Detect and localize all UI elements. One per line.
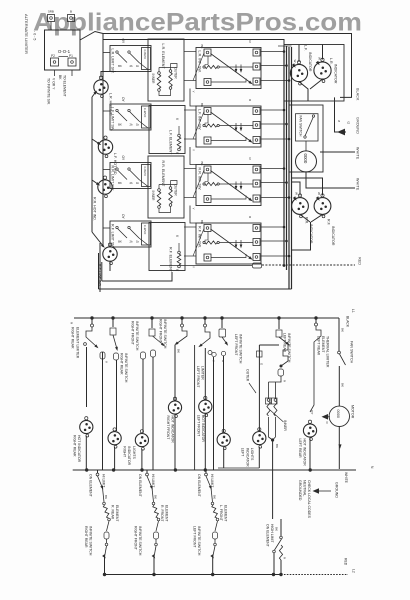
svg-text:R.R. INF. SW.: R.R. INF. SW. bbox=[198, 168, 202, 191]
svg-text:GROUND: GROUND bbox=[356, 117, 360, 134]
svg-text:L.R. HOT IND.: L.R. HOT IND. bbox=[109, 93, 113, 116]
motor (top) bbox=[296, 151, 317, 172]
switch blades bbox=[117, 170, 127, 180]
svg-text:LEFT FRONT: LEFT FRONT bbox=[193, 526, 197, 548]
svg-text:2b: 2b bbox=[129, 64, 133, 68]
compensator sub-box bbox=[142, 223, 151, 245]
white wires bbox=[320, 151, 355, 153]
lamp stems bbox=[85, 436, 87, 470]
svg-text:BK: BK bbox=[200, 162, 204, 166]
svg-text:L. FRONT: L. FRONT bbox=[219, 505, 223, 522]
svg-text:W: W bbox=[317, 192, 321, 195]
svg-text:R. REAR: R. REAR bbox=[111, 505, 115, 520]
bottom diagram top bus (L1) bbox=[74, 317, 339, 319]
svg-text:GROUNDED: GROUNDED bbox=[298, 480, 302, 501]
svg-text:ON ELEMENT: ON ELEMENT bbox=[197, 474, 201, 498]
svg-text:WHITE: WHITE bbox=[356, 178, 360, 191]
svg-text:R.F.: R.F. bbox=[327, 219, 331, 226]
svg-text:INDICATOR: INDICATOR bbox=[127, 446, 131, 465]
inf sw internals bbox=[207, 115, 209, 124]
svg-text:INNER: INNER bbox=[151, 74, 155, 85]
inf sw internals bbox=[207, 232, 209, 241]
element to inf sw links bbox=[184, 109, 196, 111]
svg-text:HOT INDICATOR: HOT INDICATOR bbox=[201, 415, 205, 443]
svg-text:INDICATOR: INDICATOR bbox=[245, 448, 249, 467]
connector bbox=[100, 352, 105, 359]
svg-text:ELEMENT: ELEMENT bbox=[115, 505, 119, 522]
hot indicator lamp at 259.3,438.1 bbox=[253, 428, 266, 448]
svg-text:BLACK: BLACK bbox=[356, 88, 360, 101]
svg-text:BK: BK bbox=[118, 64, 122, 68]
svg-text:BK: BK bbox=[200, 45, 204, 49]
right front hot indicator branch bbox=[181, 318, 183, 324]
right front limiter branch bbox=[151, 318, 153, 328]
left terminals bbox=[204, 225, 211, 232]
L.R. indicator lamp bbox=[314, 58, 331, 82]
svg-text:RIGHT FRONT: RIGHT FRONT bbox=[166, 416, 170, 441]
svg-text:LEFT FRONT: LEFT FRONT bbox=[196, 366, 200, 388]
inf sw internals bbox=[207, 56, 209, 65]
svg-text:BLACK: BLACK bbox=[346, 316, 350, 328]
L.R. element box (dual) bbox=[148, 39, 184, 101]
svg-text:BK: BK bbox=[104, 495, 108, 499]
svg-text:C-WVO: C-WVO bbox=[143, 50, 147, 59]
svg-text:RIGHT FRONT: RIGHT FRONT bbox=[134, 526, 138, 551]
svg-text:LEFT: LEFT bbox=[241, 448, 245, 457]
svg-text:RIGHT FRONT: RIGHT FRONT bbox=[159, 319, 163, 344]
ground branch (top) bbox=[335, 97, 347, 132]
svg-text:AppliancePartsPros.com: AppliancePartsPros.com bbox=[33, 9, 362, 37]
svg-text:LEFT REAR: LEFT REAR bbox=[317, 336, 321, 356]
element chain at x=147 bbox=[146, 470, 148, 473]
fan switch (bottom) bbox=[338, 318, 340, 351]
right front infinite switch branch bbox=[112, 318, 114, 327]
left terminals bbox=[204, 49, 211, 56]
wires to right bus bbox=[261, 51, 285, 53]
right terminals bbox=[253, 166, 260, 173]
neutral bus (N WHITE) bbox=[73, 469, 356, 471]
svg-text:1b: 1b bbox=[136, 64, 140, 68]
left front infinite switch branch bbox=[221, 318, 223, 328]
hot indicator lamp at 141.9,440.1 bbox=[135, 430, 148, 450]
svg-text:1b: 1b bbox=[136, 240, 140, 244]
svg-text:ELEMENT: ELEMENT bbox=[321, 336, 325, 353]
fan switch blade bbox=[305, 117, 314, 137]
R.F. limit switch box bbox=[110, 221, 151, 247]
svg-text:BK: BK bbox=[341, 328, 345, 332]
svg-text:HIGH LIMIT: HIGH LIMIT bbox=[270, 524, 274, 544]
svg-text:C-WVO: C-WVO bbox=[143, 108, 147, 117]
right rear element limiter branch bbox=[91, 318, 93, 324]
svg-text:RIGHT REAR: RIGHT REAR bbox=[120, 353, 124, 375]
L.R. infinite switch box bbox=[196, 48, 261, 89]
svg-text:L.R. LIMIT SW.: L.R. LIMIT SW. bbox=[111, 49, 115, 74]
wire bus to limit box bbox=[103, 169, 110, 171]
limit to element diagonal bbox=[139, 238, 148, 245]
element chain at x=97.5 bbox=[97, 470, 99, 473]
R.R. element box (dual) bbox=[148, 156, 184, 218]
L.F. infinite switch box bbox=[196, 106, 261, 147]
top bus wire 1 (to BLACK) bbox=[103, 34, 352, 98]
svg-text:- 0 - 5: - 0 - 5 bbox=[33, 31, 37, 40]
svg-text:R: R bbox=[283, 380, 287, 382]
left terminals bbox=[204, 166, 211, 173]
svg-text:HOT INDICATOR: HOT INDICATOR bbox=[77, 435, 81, 463]
svg-text:BK: BK bbox=[118, 240, 122, 244]
left rear infinite switch branch bbox=[278, 318, 280, 329]
fan switch sub-box bbox=[296, 114, 319, 141]
high limit on element chain bbox=[280, 519, 282, 536]
R.F. infinite switch box bbox=[196, 223, 261, 264]
R.F. element box (single) bbox=[149, 223, 185, 271]
svg-text:HOT INDICATOR: HOT INDICATOR bbox=[171, 416, 175, 444]
svg-text:RIGHT FRONT: RIGHT FRONT bbox=[131, 321, 135, 346]
svg-text:L.R. ELEMENT: L.R. ELEMENT bbox=[161, 44, 165, 70]
wire bus to limit box bbox=[103, 52, 110, 54]
svg-text:TO ELEMENT: TO ELEMENT bbox=[63, 75, 67, 97]
right bus verticals bbox=[283, 46, 285, 266]
outer element line bbox=[259, 344, 279, 346]
svg-text:B: B bbox=[70, 10, 72, 14]
svg-text:RIGHT REAR: RIGHT REAR bbox=[71, 327, 75, 349]
terminal P2 bbox=[51, 58, 59, 66]
R indicator wires bbox=[292, 182, 301, 195]
leads below alternate limiter bbox=[54, 70, 56, 76]
svg-text:1b: 1b bbox=[136, 181, 140, 185]
L.F. indicator lamp bbox=[290, 61, 307, 85]
svg-text:HOT INDICATOR: HOT INDICATOR bbox=[303, 439, 307, 467]
right terminals bbox=[253, 225, 260, 232]
svg-text:HI LIMIT: HI LIMIT bbox=[102, 474, 106, 488]
svg-text:INFINITE SWITCH: INFINITE SWITCH bbox=[138, 526, 142, 556]
svg-text:INNER: INNER bbox=[151, 191, 155, 202]
svg-text:V: V bbox=[105, 361, 109, 363]
compensator sub-box bbox=[142, 165, 151, 187]
R.F. indicator lamp bbox=[314, 194, 331, 218]
svg-text:BK: BK bbox=[200, 103, 204, 107]
svg-text:L.F. ELEMENT: L.F. ELEMENT bbox=[169, 130, 173, 155]
limit to element diagonal bbox=[139, 63, 148, 70]
svg-text:P2: P2 bbox=[51, 54, 55, 58]
svg-text:R: R bbox=[283, 557, 287, 559]
svg-text:NEUTRAL: NEUTRAL bbox=[303, 480, 307, 496]
svg-text:0000: 0000 bbox=[303, 154, 308, 164]
svg-text:INDICATOR: INDICATOR bbox=[334, 64, 338, 84]
svg-text:Y: Y bbox=[192, 266, 196, 268]
svg-text:L.R.: L.R. bbox=[329, 58, 333, 65]
svg-text:INFINITE SWITCH: INFINITE SWITCH bbox=[163, 319, 167, 349]
hot indicator bus vertical bbox=[91, 97, 93, 232]
R.R. limit switch box bbox=[110, 163, 151, 189]
svg-text:Y: Y bbox=[192, 149, 196, 151]
indicator pair wires bbox=[298, 45, 300, 63]
limit to element diagonal bbox=[139, 121, 148, 128]
element top link bbox=[159, 64, 177, 68]
svg-text:HI LIMIT: HI LIMIT bbox=[151, 474, 155, 488]
svg-text:WHITE: WHITE bbox=[344, 472, 348, 484]
svg-text:LIGHTS: LIGHTS bbox=[132, 446, 136, 459]
svg-text:FAN SWITCH: FAN SWITCH bbox=[299, 116, 303, 137]
svg-text:BK: BK bbox=[177, 349, 181, 353]
svg-text:BK: BK bbox=[341, 383, 345, 387]
wire bbox=[194, 345, 196, 470]
svg-text:L.R. INF. SW.: L.R. INF. SW. bbox=[198, 51, 202, 73]
svg-text:RIGHT REAR: RIGHT REAR bbox=[72, 435, 76, 457]
left feeder vertical bbox=[102, 34, 104, 248]
terminal P1 bbox=[68, 58, 76, 66]
wires to hot indicator lamps bbox=[101, 72, 116, 78]
switch blades bbox=[117, 111, 127, 121]
indicator pair frame bbox=[284, 45, 344, 102]
svg-text:W: W bbox=[318, 57, 322, 60]
svg-text:LEFT REAR: LEFT REAR bbox=[298, 439, 302, 459]
svg-text:INFINITE SWITCH: INFINITE SWITCH bbox=[197, 526, 201, 556]
right terminals bbox=[253, 108, 260, 115]
svg-text:THERMAL LIMITER: THERMAL LIMITER bbox=[326, 336, 330, 368]
left rear element thermal limiter branch bbox=[315, 318, 317, 323]
svg-text:LEFT FRONT: LEFT FRONT bbox=[196, 415, 200, 437]
svg-text:INDICATOR: INDICATOR bbox=[308, 52, 312, 72]
svg-text:INFINITE SWITCH: INFINITE SWITCH bbox=[135, 321, 139, 351]
svg-text:LIMITER: LIMITER bbox=[201, 366, 205, 380]
bottom bus (L2 RED) bbox=[105, 574, 282, 576]
limit to element diagonal bbox=[139, 180, 148, 187]
jumper wire bbox=[59, 56, 69, 58]
svg-text:OUTER: OUTER bbox=[246, 369, 250, 382]
svg-text:CHECK LOCAL CODES: CHECK LOCAL CODES bbox=[307, 480, 311, 519]
svg-text:ON ELEMENT: ON ELEMENT bbox=[89, 474, 93, 498]
svg-text:R.R. HOT IND.: R.R. HOT IND. bbox=[93, 197, 97, 221]
svg-text:2b: 2b bbox=[129, 123, 133, 127]
svg-text:Y: Y bbox=[192, 91, 196, 93]
svg-text:P1: P1 bbox=[69, 54, 73, 58]
red wire (top) bbox=[160, 265, 252, 267]
inf sw internals bbox=[207, 173, 209, 182]
svg-text:R.F. ELEMENT: R.F. ELEMENT bbox=[169, 247, 173, 273]
top bus wire 2 bbox=[103, 40, 284, 47]
svg-text:5RB: 5RB bbox=[48, 10, 54, 14]
outer/inner coils (bottom section) bbox=[269, 376, 282, 382]
svg-text:ELEMENT: ELEMENT bbox=[224, 505, 228, 522]
element to inf sw links bbox=[184, 226, 196, 228]
svg-text:OUTER: OUTER bbox=[174, 185, 178, 197]
svg-text:RIGHT REAR: RIGHT REAR bbox=[84, 526, 88, 548]
alternate limiter box bbox=[45, 30, 81, 70]
svg-text:INFINITE SWITCH: INFINITE SWITCH bbox=[124, 353, 128, 383]
svg-text:WHITE: WHITE bbox=[356, 147, 360, 160]
L.F. HOT IND. lamp bbox=[98, 136, 112, 158]
svg-text:1b: 1b bbox=[136, 123, 140, 127]
wires to right bus bbox=[261, 168, 285, 170]
svg-text:LEFT FRONT: LEFT FRONT bbox=[234, 334, 238, 356]
svg-text:R.F. LIMIT SW.: R.F. LIMIT SW. bbox=[111, 224, 115, 249]
svg-text:C-WVO: C-WVO bbox=[143, 167, 147, 176]
svg-text:L1: L1 bbox=[351, 309, 355, 313]
wires to right bus bbox=[261, 109, 285, 111]
motor (bottom) bbox=[329, 406, 349, 426]
L.R. limit switch box bbox=[110, 46, 151, 72]
svg-text:ON ELEMENT: ON ELEMENT bbox=[138, 474, 142, 498]
svg-text:W: W bbox=[293, 60, 297, 63]
svg-text:ALTERNATE LIMITER: ALTERNATE LIMITER bbox=[24, 14, 29, 54]
svg-text:BK: BK bbox=[118, 123, 122, 127]
svg-text:R. FRONT: R. FRONT bbox=[160, 505, 164, 522]
svg-text:Y: Y bbox=[192, 208, 196, 210]
svg-text:RED: RED bbox=[344, 558, 348, 566]
svg-text:0000: 0000 bbox=[336, 410, 340, 418]
ground symbol (bottom) bbox=[313, 488, 320, 494]
L.F. limit switch box bbox=[110, 104, 151, 130]
svg-text:L.F. HOT IND.: L.F. HOT IND. bbox=[113, 153, 117, 176]
inner coil bbox=[158, 68, 160, 73]
svg-text:2b: 2b bbox=[129, 240, 133, 244]
svg-text:BK: BK bbox=[275, 527, 279, 531]
svg-text:OUTER: OUTER bbox=[174, 68, 178, 80]
svg-text:HI LIMIT: HI LIMIT bbox=[210, 474, 214, 488]
left terminals bbox=[204, 108, 211, 115]
svg-text:R.R. ELEMENT: R.R. ELEMENT bbox=[161, 161, 165, 188]
wire bus to limit box bbox=[103, 110, 110, 112]
hot indicator lamp at 175,407.5 bbox=[168, 397, 181, 417]
R.R. HOT IND. lamp bbox=[98, 176, 112, 198]
element to inf sw links bbox=[184, 51, 196, 53]
svg-text:INFINITE SWITCH: INFINITE SWITCH bbox=[287, 333, 291, 363]
svg-text:V OR Y: V OR Y bbox=[52, 78, 56, 90]
svg-text:W: W bbox=[295, 192, 299, 195]
switch blades bbox=[117, 53, 127, 63]
right terminals bbox=[253, 49, 260, 56]
switch blades bbox=[117, 228, 127, 238]
svg-text:BK: BK bbox=[118, 181, 122, 185]
svg-text:BK: BK bbox=[213, 495, 217, 499]
svg-text:INFINITE SWITCH: INFINITE SWITCH bbox=[239, 334, 243, 364]
hot indicator lamp at 114.6,438.2 bbox=[108, 428, 121, 448]
svg-text:GROUND: GROUND bbox=[335, 482, 339, 498]
svg-text:C-WVO: C-WVO bbox=[143, 225, 147, 234]
svg-text:ELEMENT LIMITER: ELEMENT LIMITER bbox=[76, 327, 80, 359]
top terminal squares bbox=[48, 15, 55, 22]
compensator sub-box bbox=[142, 106, 151, 128]
svg-text:BK: BK bbox=[200, 220, 204, 224]
element to inf sw links bbox=[184, 168, 196, 170]
element coil bbox=[178, 126, 180, 134]
svg-text:RIGHT: RIGHT bbox=[123, 446, 127, 458]
svg-text:ON ELEMENT: ON ELEMENT bbox=[266, 524, 270, 548]
svg-text:TO INFINITE SW.: TO INFINITE SW. bbox=[47, 78, 51, 105]
svg-text:BK: BK bbox=[154, 495, 158, 499]
hot indicator lamp at 310,430.5 bbox=[303, 420, 316, 440]
L.R. HOT IND. lamp bbox=[94, 76, 108, 98]
outer coil bbox=[170, 181, 172, 187]
svg-text:RED: RED bbox=[358, 257, 362, 265]
svg-text:L.F.: L.F. bbox=[304, 45, 308, 51]
wires to right bus bbox=[261, 226, 285, 228]
svg-text:INDICATOR: INDICATOR bbox=[331, 226, 335, 246]
svg-text:MOTOR: MOTOR bbox=[351, 405, 355, 419]
hot indicator lamp at 223.7,439.7 bbox=[217, 429, 230, 449]
left front limiter branch bbox=[204, 318, 206, 324]
svg-text:BK: BK bbox=[275, 444, 279, 448]
L.F. element box (single) bbox=[149, 106, 185, 154]
svg-text:BK: BK bbox=[58, 75, 62, 80]
outer coil bbox=[170, 64, 172, 70]
svg-text:FAN SWITCH: FAN SWITCH bbox=[350, 341, 354, 364]
svg-text:ELEMENT: ELEMENT bbox=[165, 505, 169, 522]
compensator sub-box bbox=[142, 48, 151, 70]
svg-text:INFINITE SWITCH: INFINITE SWITCH bbox=[89, 526, 93, 556]
element coil bbox=[178, 243, 180, 251]
bottom frame lines of top diagram bbox=[102, 272, 172, 281]
R.R. indicator lamp bbox=[292, 194, 309, 218]
element top link bbox=[159, 181, 177, 185]
hot indicator lamp at 205.3,406.7 bbox=[199, 396, 212, 416]
svg-text:LIGHTS: LIGHTS bbox=[250, 448, 254, 461]
svg-text:2b: 2b bbox=[129, 181, 133, 185]
wire bus to limit box bbox=[103, 227, 110, 229]
svg-text:OY: OY bbox=[310, 410, 314, 414]
element chain at x=206 bbox=[205, 470, 207, 473]
hot indicator lamp at 86.3,427 bbox=[80, 417, 93, 437]
svg-text:L2: L2 bbox=[352, 569, 356, 573]
R.F. HOT IND. lamp bbox=[103, 243, 117, 265]
svg-text:LEFT REAR: LEFT REAR bbox=[283, 333, 287, 353]
R.R. infinite switch box bbox=[196, 165, 261, 206]
wire from limiter to bus bbox=[80, 32, 103, 41]
fan switch / motor box bbox=[289, 105, 323, 172]
inner coil bbox=[158, 185, 160, 190]
